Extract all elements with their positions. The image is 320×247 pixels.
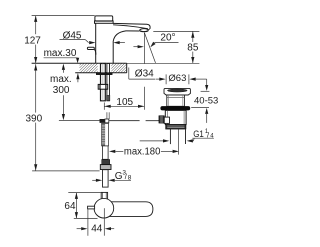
drain body (165, 110, 186, 124)
wire: counter plane extension right (85 reference) (127, 62, 200, 64)
drain knurled nut (159, 116, 164, 123)
drain dish (167, 89, 187, 92)
supply hose smooth section (102, 146, 108, 159)
pull-rod tube (right tube) (107, 64, 110, 101)
svg-text:44: 44 (91, 223, 103, 234)
drain thread band (166, 125, 186, 130)
faucet cap (95, 16, 113, 21)
drain O-ring (160, 106, 190, 110)
dimension max.300 (62, 70, 64, 73)
plan view: body circle (94, 198, 114, 218)
wire: rod level extension line (max.300 reference) (59, 120, 100, 122)
svg-text:8: 8 (128, 175, 132, 182)
wire: water stream vertical reference line (143, 33, 145, 64)
dimension 64 (68, 192, 101, 194)
node: pull rod stub above fitting (106, 112, 108, 119)
dimension G3/8 (92, 179, 96, 181)
svg-text:max.180: max.180 (124, 146, 161, 157)
angle arrow at vertical line (133, 46, 138, 48)
dimension Ø63 (165, 74, 167, 84)
svg-text:390: 390 (26, 113, 43, 124)
svg-text:Ø63: Ø63 (168, 73, 186, 84)
dimension 85 (153, 30, 199, 32)
dimension Ø34 (128, 68, 130, 80)
dimension 105 (104, 105, 144, 107)
svg-text:G1: G1 (193, 129, 204, 140)
hose ferrule (102, 160, 110, 165)
counter hatch (72, 63, 136, 73)
svg-text:127: 127 (24, 35, 41, 46)
svg-text:105: 105 (116, 97, 133, 108)
lever (87, 47, 94, 49)
plan view: spout stadium (104, 202, 153, 217)
cross fitting on pop-up rod (100, 119, 105, 122)
svg-text:85: 85 (187, 43, 199, 54)
plan view: tab (101, 192, 107, 200)
plan view: lever (88, 206, 95, 209)
dimension max.180 (109, 150, 115, 153)
dimension G1 1/4 (140, 140, 163, 142)
drain side port (164, 117, 169, 123)
mounting nut (98, 84, 108, 89)
svg-text:64: 64 (64, 201, 76, 212)
aerator (148, 28, 150, 31)
counter right edge (126, 63, 128, 73)
dimension 127/390 shared vertical line (35, 16, 37, 171)
mounting washer (96, 73, 112, 75)
counter bottom line (75, 72, 127, 74)
faucet body and spout outline (96, 23, 150, 63)
svg-text:Ø34: Ø34 (135, 69, 154, 80)
supply hose braided section (102, 123, 109, 145)
drain neck (167, 95, 185, 106)
drain tailpiece (169, 129, 171, 144)
pop-up rod (109, 120, 140, 122)
hose nut (100, 165, 111, 170)
svg-text:300: 300 (53, 85, 70, 96)
svg-text:40-53: 40-53 (194, 95, 218, 106)
dimension 44 (87, 209, 89, 236)
spout front slope edge (113, 25, 148, 29)
svg-text:20°: 20° (160, 32, 175, 43)
dimension 40-53 (206, 79, 208, 85)
counter top line (32, 62, 127, 64)
threaded shank (left tube through hole) (101, 64, 106, 101)
G3/8 thread stub (103, 170, 109, 187)
drain flange (164, 88, 190, 95)
svg-text:max.: max. (50, 74, 72, 85)
node: faucet axis tick (105 dimension left extension) (103, 103, 105, 110)
node: drain centerline (177, 129, 179, 155)
wire: 20 degree stream line (144, 33, 155, 63)
wire: hose-end extension line (390 reference) (32, 170, 100, 172)
wire: top extension line from faucet cap to 127/390 dimension (32, 15, 95, 17)
